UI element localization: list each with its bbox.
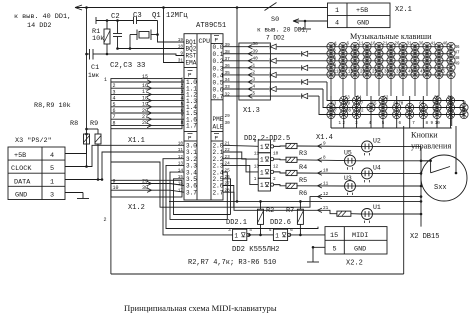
svg-text:46: 46 (455, 46, 461, 50)
svg-text:управления: управления (411, 142, 451, 151)
svg-text:16: 16 (371, 43, 377, 47)
svg-text:P: P (215, 37, 219, 44)
wire DD1 P2.2 to DD2.4 input (223, 159, 258, 172)
svg-text:R4: R4 (299, 164, 307, 172)
svg-text:DD2.2-DD2.5: DD2.2-DD2.5 (244, 135, 290, 143)
svg-text:26: 26 (395, 43, 401, 47)
connector X2.1 (328, 3, 412, 28)
svg-text:30: 30 (384, 71, 390, 75)
caption (124, 303, 277, 313)
svg-text:30: 30 (142, 185, 148, 191)
svg-text:11: 11 (359, 43, 365, 47)
svg-text:5: 5 (50, 165, 54, 173)
wire +5V drop right of DD1 (236, 8, 239, 203)
resistor R4 (274, 157, 307, 172)
musical keys matrix upper labels (334, 43, 461, 76)
X1.4 row wires and pins (297, 142, 362, 213)
musical keys matrix upper block contacts (327, 42, 455, 78)
crystal Q1 (129, 12, 189, 50)
capacitor C3 (133, 12, 158, 24)
svg-text:8: 8 (323, 155, 326, 160)
svg-text:MIDI: MIDI (352, 232, 368, 240)
svg-text:71: 71 (462, 103, 468, 107)
svg-text:C1: C1 (91, 64, 99, 72)
svg-text:C2: C2 (111, 13, 120, 21)
svg-text:6: 6 (180, 108, 183, 114)
svg-text:X2 DB15: X2 DB15 (410, 233, 439, 241)
svg-text:1: 1 (260, 144, 264, 151)
svg-text:15: 15 (348, 71, 354, 75)
diode row 7 X1.3 pin 4 (223, 85, 323, 92)
wire DD1 P3.2 to DD2.1 input (163, 159, 233, 235)
svg-text:40: 40 (408, 71, 414, 75)
inverter DD2.2 (254, 139, 276, 153)
svg-text:9: 9 (180, 52, 183, 57)
resistor R8 (70, 120, 90, 168)
svg-text:P: P (188, 135, 192, 142)
svg-text:3: 3 (180, 89, 183, 95)
svg-text:69: 69 (345, 103, 351, 107)
svg-text:29: 29 (142, 178, 148, 184)
svg-text:19: 19 (142, 102, 148, 108)
svg-text:0.1: 0.1 (213, 51, 224, 58)
connector X2.2 MIDI (325, 227, 439, 268)
svg-text:ALE: ALE (213, 124, 224, 131)
ground near X2.2 (307, 261, 319, 263)
wire MIDI GND to ground (312, 246, 325, 262)
wire reset/crystal node top (96, 17, 134, 24)
svg-text:GND: GND (15, 191, 27, 199)
svg-text:45: 45 (440, 71, 446, 75)
transistor V2 (362, 138, 381, 156)
svg-text:13: 13 (254, 164, 260, 169)
node GND off-page arrow to pin 20 DD1, 7 DD2 (257, 19, 328, 42)
svg-text:16: 16 (142, 83, 148, 89)
wire +5V rail vertical left (to X3) (86, 8, 88, 154)
svg-text:1.7: 1.7 (186, 123, 197, 130)
wire DD1 P2.4 down (223, 172, 227, 219)
label control buttons (411, 131, 451, 151)
svg-text:P: P (215, 135, 219, 142)
IC DD1 port2 header (211, 134, 223, 142)
wire DD1 P2.1 to DD2.3 input (223, 152, 258, 159)
wire X3 DATA to DD1 P3.1 (65, 152, 184, 181)
wire U5 collector to Sxx (356, 160, 431, 163)
svg-text:X3 "PS/2": X3 "PS/2" (15, 137, 52, 145)
diode row 2 X1.3 pin 39 (223, 49, 451, 56)
svg-text:1: 1 (234, 232, 238, 239)
svg-text:Кнопки: Кнопки (411, 131, 438, 140)
svg-text:7 DD2: 7 DD2 (266, 35, 285, 42)
svg-text:57: 57 (332, 110, 338, 114)
svg-text:53: 53 (345, 97, 351, 101)
switch S0 (265, 3, 328, 25)
svg-text:34: 34 (225, 78, 231, 83)
svg-text:0.6: 0.6 (213, 86, 224, 93)
svg-text:C3: C3 (133, 12, 142, 20)
svg-text:11: 11 (254, 152, 260, 157)
svg-text:1: 1 (180, 77, 183, 83)
svg-text:U4: U4 (373, 165, 381, 172)
transistor V5 (344, 150, 356, 170)
svg-text:5: 5 (269, 228, 272, 233)
inverter DD2.4 (254, 164, 279, 178)
svg-text:1: 1 (50, 178, 54, 186)
svg-text:49: 49 (455, 63, 461, 67)
resistor at V1 base (337, 211, 362, 216)
svg-text:1мк: 1мк (88, 72, 99, 79)
IC DD1 port0 header (211, 36, 223, 44)
svg-text:1: 1 (104, 77, 107, 83)
svg-text:Q1: Q1 (152, 12, 161, 20)
svg-text:X1.3: X1.3 (243, 107, 260, 115)
capacitor C2 (111, 13, 122, 49)
svg-text:10: 10 (113, 185, 119, 191)
svg-text:41: 41 (431, 43, 437, 47)
svg-text:63: 63 (331, 103, 337, 107)
svg-text:2.7: 2.7 (213, 189, 224, 196)
wire BQ2 net (116, 47, 184, 50)
svg-text:DATA: DATA (14, 178, 31, 186)
svg-text:1: 1 (260, 182, 264, 189)
keys matrix lower labels (331, 97, 467, 127)
svg-text:19: 19 (178, 38, 184, 43)
svg-text:U2: U2 (373, 138, 381, 145)
label R8,R9 10k (34, 102, 71, 110)
diode row 1 X1.3 pin 38 (223, 42, 451, 49)
svg-text:R6: R6 (299, 190, 307, 198)
svg-text:64: 64 (434, 103, 440, 107)
svg-text:4: 4 (253, 85, 256, 90)
svg-text:Музыкальные клавиши: Музыкальные клавиши (350, 32, 432, 41)
resistor R7 (286, 201, 303, 235)
IC DD1 AT89C51 (178, 22, 226, 200)
svg-text:36: 36 (419, 43, 425, 47)
svg-text:X1.1: X1.1 (128, 137, 145, 145)
svg-text:RST: RST (186, 52, 197, 59)
connector X1.1 (111, 79, 182, 145)
svg-text:7: 7 (113, 114, 116, 120)
wire DD1 P2.6 to X1.4 row 12 and rail (223, 186, 421, 208)
svg-text:3: 3 (228, 228, 231, 233)
wire RST net (107, 54, 184, 56)
svg-text:6: 6 (113, 108, 116, 114)
svg-text:Sxx: Sxx (434, 184, 447, 192)
ground near X2.1 (299, 21, 311, 29)
svg-text:9: 9 (113, 179, 116, 185)
svg-text:39: 39 (253, 49, 259, 54)
svg-text:к выв. 20 DD1,: к выв. 20 DD1, (257, 27, 309, 34)
label musical keys (350, 32, 432, 41)
wire collector rail right (356, 146, 423, 226)
svg-text:29: 29 (225, 114, 231, 119)
keys matrix lower block contacts (327, 96, 468, 118)
svg-text:R8,R9 10k: R8,R9 10k (34, 102, 71, 110)
resistor R1 (92, 21, 110, 55)
wire DD1 P3.5 run (174, 179, 231, 215)
svg-text:10k: 10k (92, 35, 104, 43)
svg-text:61: 61 (419, 110, 425, 114)
svg-text:21: 21 (383, 43, 389, 47)
svg-text:66: 66 (419, 103, 425, 107)
resistor R5 (274, 170, 307, 185)
keys matrix lower block wires (331, 96, 464, 128)
transistor V4 (362, 165, 381, 183)
svg-text:+5В: +5В (356, 7, 368, 15)
svg-text:BQ2: BQ2 (186, 45, 197, 52)
wire DD1 P3.3 shield run (166, 165, 318, 228)
wire DD1 P2.3 to DD2.5 input (223, 165, 258, 184)
connector X1.2 (104, 180, 183, 223)
svg-text:24: 24 (225, 162, 231, 167)
svg-text:CLOCK: CLOCK (11, 165, 32, 173)
label DD2.2-DD2.5 (244, 135, 290, 143)
svg-text:67: 67 (358, 103, 364, 107)
svg-text:0.0: 0.0 (213, 44, 224, 51)
svg-text:10: 10 (273, 152, 279, 157)
X1.1 wires rows 1-8 to DD1 port1 (104, 74, 197, 130)
svg-text:30: 30 (225, 121, 231, 126)
svg-text:CPU: CPU (199, 38, 211, 45)
wire DD1 P2.0 to DD2.2 input (223, 145, 258, 146)
diode row 6 X1.3 pin 3 (223, 77, 327, 84)
diode row 8 X1.3 pin 5 (223, 92, 319, 99)
svg-text:4: 4 (180, 95, 183, 101)
svg-text:2: 2 (113, 83, 116, 89)
svg-text:45: 45 (420, 71, 426, 75)
svg-text:1: 1 (275, 232, 279, 239)
svg-text:15: 15 (142, 74, 148, 80)
svg-text:38: 38 (253, 42, 259, 47)
svg-text:X2.2: X2.2 (346, 260, 363, 268)
svg-text:20: 20 (360, 71, 366, 75)
svg-text:70: 70 (398, 103, 404, 107)
svg-text:0.5: 0.5 (213, 79, 224, 86)
svg-text:+5В: +5В (14, 152, 26, 160)
frame border left and bottom and right (111, 126, 404, 274)
IC DD1 port3 labels (178, 142, 197, 197)
svg-text:4: 4 (113, 96, 116, 102)
inverter DD2.3 (254, 152, 279, 166)
svg-text:13: 13 (178, 162, 184, 167)
svg-text:15: 15 (330, 232, 338, 240)
svg-text:6: 6 (290, 228, 293, 233)
svg-text:PME: PME (213, 116, 224, 123)
svg-text:GND: GND (357, 20, 369, 28)
svg-text:51: 51 (448, 110, 454, 114)
wire X3 CLOCK to DD1 P3.0 (65, 145, 184, 166)
svg-text:62: 62 (359, 110, 365, 114)
svg-text:0.4: 0.4 (213, 72, 224, 79)
svg-text:7: 7 (180, 114, 183, 120)
svg-text:12МГц: 12МГц (166, 12, 188, 20)
svg-text:5: 5 (180, 102, 183, 108)
svg-text:3.7: 3.7 (186, 189, 197, 196)
diode row 5 X1.3 pin 2 (223, 70, 451, 77)
svg-text:U5: U5 (344, 150, 352, 157)
musical keys matrix upper block wires (331, 44, 451, 97)
svg-text:65: 65 (372, 103, 378, 107)
svg-text:1: 1 (260, 157, 264, 164)
inverter DD2.6 (269, 228, 325, 241)
X1.2 wires rows 9-10 (111, 178, 184, 192)
wire keyboard shield run (111, 162, 234, 207)
svg-text:4: 4 (335, 20, 339, 28)
connector X1.4 (316, 134, 333, 142)
svg-text:72: 72 (448, 103, 454, 107)
svg-text:8: 8 (113, 120, 116, 126)
svg-text:AT89C51: AT89C51 (196, 22, 226, 30)
svg-text:X2.1: X2.1 (395, 6, 412, 14)
label DD2.6 (270, 219, 291, 227)
svg-text:28: 28 (142, 120, 148, 126)
svg-text:21: 21 (323, 206, 329, 211)
svg-text:25: 25 (372, 71, 378, 75)
svg-text:X1.2: X1.2 (128, 204, 145, 212)
svg-text:5: 5 (333, 246, 337, 254)
svg-text:31: 31 (407, 43, 413, 47)
IC DD1 port0 labels and pins (211, 43, 230, 101)
inverter DD2.1 (228, 228, 273, 241)
svg-text:20: 20 (142, 108, 148, 114)
svg-text:10: 10 (435, 122, 441, 126)
svg-text:35: 35 (396, 71, 402, 75)
svg-text:48: 48 (455, 57, 461, 61)
svg-text:18: 18 (178, 45, 184, 50)
wire DD1 P3.4 run (170, 172, 227, 219)
wire DD1 P2.5 down (223, 179, 231, 215)
svg-text:16: 16 (178, 182, 184, 187)
svg-text:5: 5 (253, 92, 256, 97)
svg-text:2: 2 (253, 70, 256, 75)
control block box (331, 97, 452, 128)
wire EA net to +5V (164, 8, 185, 63)
wire X3 GND to ground (65, 192, 83, 194)
svg-text:0.2: 0.2 (213, 58, 224, 65)
svg-text:R2: R2 (266, 207, 274, 215)
svg-text:58: 58 (346, 110, 352, 114)
diode row 3 X1.3 pin 40 (223, 56, 451, 63)
svg-text:2: 2 (180, 83, 183, 89)
wire bus +5V row (169, 200, 422, 203)
diode row 4 X1.3 pin 1 (223, 63, 451, 70)
inverter DD2.5 (254, 177, 276, 191)
svg-text:R9: R9 (90, 120, 98, 128)
svg-text:4: 4 (50, 152, 54, 160)
IC DD1 port3 header (184, 132, 197, 142)
resistor R2 (258, 201, 275, 235)
wire DD1 P2.7 to V1 via X1.4 pin 21 (223, 192, 337, 214)
svg-text:31: 31 (178, 59, 184, 64)
svg-text:DD2.1: DD2.1 (226, 219, 247, 227)
svg-text:3: 3 (113, 89, 116, 95)
IC DD1 PME ALE pins (211, 114, 230, 132)
IC DD1 port2 labels and pins (213, 142, 231, 197)
svg-text:46: 46 (443, 43, 449, 47)
svg-text:1: 1 (253, 63, 256, 68)
svg-text:R7: R7 (286, 207, 294, 215)
svg-text:к выв. 40 DD1,: к выв. 40 DD1, (14, 13, 71, 21)
svg-text:36: 36 (225, 64, 231, 69)
svg-text:5: 5 (113, 102, 116, 108)
resistor R9 (85, 120, 101, 181)
svg-text:54: 54 (357, 97, 363, 101)
svg-text:14 DD2: 14 DD2 (27, 22, 51, 30)
svg-text:R5: R5 (299, 177, 307, 185)
svg-text:0.3: 0.3 (213, 65, 224, 72)
wire X3 +5V to rail (65, 153, 87, 155)
svg-text:3: 3 (253, 77, 256, 82)
wires rows 6-8 bends to lower key block (319, 82, 464, 115)
svg-text:C2,C3 33: C2,C3 33 (110, 62, 145, 70)
svg-text:27: 27 (142, 114, 148, 120)
svg-text:R3: R3 (299, 150, 307, 158)
svg-text:EMA: EMA (186, 59, 197, 66)
svg-text:GND: GND (354, 246, 366, 254)
wire BQ1 net (158, 21, 185, 43)
svg-text:12: 12 (273, 164, 279, 169)
svg-text:47: 47 (455, 52, 461, 56)
svg-text:60: 60 (462, 110, 468, 114)
svg-text:U3: U3 (344, 175, 352, 182)
transistor V3 (344, 175, 356, 195)
svg-text:4: 4 (249, 228, 252, 233)
ground near X3 (77, 193, 89, 199)
capacitor C1 (85, 49, 108, 79)
button Sxx (421, 126, 467, 201)
svg-text:40: 40 (253, 56, 259, 61)
svg-text:12: 12 (323, 192, 329, 197)
svg-text:DD2.6: DD2.6 (270, 219, 291, 227)
svg-text:P: P (188, 72, 192, 79)
svg-text:U1: U1 (373, 204, 381, 211)
transistor V1 (362, 204, 381, 223)
svg-text:2: 2 (273, 177, 276, 182)
svg-text:52: 52 (383, 97, 389, 101)
svg-text:55: 55 (434, 97, 440, 101)
svg-text:1: 1 (335, 7, 339, 15)
label DD2 K555LN2 (232, 246, 279, 254)
svg-text:8: 8 (180, 120, 183, 126)
label C2,C3 33 (110, 62, 145, 70)
svg-text:62: 62 (434, 110, 440, 114)
svg-text:10: 10 (336, 71, 342, 75)
connector X3 PS/2 (8, 137, 65, 200)
resistor R3 (274, 143, 307, 158)
svg-text:S0: S0 (271, 16, 279, 24)
connector X1.3 (239, 43, 271, 115)
label resistor values (188, 259, 276, 267)
svg-text:R8: R8 (70, 120, 78, 128)
svg-text:DD2 К555ЛН2: DD2 К555ЛН2 (232, 246, 279, 254)
svg-text:18: 18 (142, 95, 148, 101)
node +5V rail top wire with off-page arrow to pin 40 DD1, 14 DD2 (14, 5, 270, 30)
svg-text:17: 17 (178, 188, 184, 193)
svg-text:8: 8 (273, 139, 276, 144)
svg-text:17: 17 (142, 89, 148, 95)
resistor R6 (274, 183, 307, 198)
svg-text:Принципиальная схема MIDI-клав: Принципиальная схема MIDI-клавиатуры (124, 303, 277, 313)
svg-text:1: 1 (260, 169, 264, 176)
svg-text:R2,R7 4,7к; R3-R6 510: R2,R7 4,7к; R3-R6 510 (188, 259, 276, 267)
svg-text:3: 3 (50, 191, 54, 199)
svg-text:2: 2 (104, 217, 107, 223)
svg-text:9: 9 (254, 139, 257, 144)
label DD2.1 (226, 219, 247, 227)
svg-text:56: 56 (448, 97, 454, 101)
svg-text:1: 1 (254, 177, 257, 182)
